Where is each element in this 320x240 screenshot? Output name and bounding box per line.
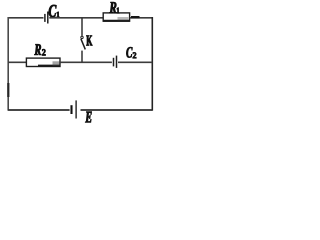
wire middle-left segment — [8, 61, 26, 63]
wire top-middle segment — [49, 17, 103, 19]
wire bottom-left segment — [8, 109, 69, 111]
label E — [85, 112, 91, 123]
battery E — [72, 100, 77, 118]
label R1 — [109, 2, 119, 13]
label K — [86, 35, 92, 45]
wire right border — [151, 17, 153, 111]
label C2 — [126, 47, 136, 58]
wire left border thick segment — [7, 83, 9, 97]
capacitor C1 — [45, 12, 48, 24]
wire top-right segment — [130, 17, 153, 19]
wire middle-right segment — [118, 61, 152, 63]
label R2 — [34, 44, 45, 55]
wire bottom-right segment — [81, 109, 153, 111]
wire top-left segment — [8, 17, 43, 19]
resistor R2 — [26, 58, 60, 66]
switch K — [81, 18, 86, 63]
resistor R1 — [103, 13, 129, 21]
wire left border — [7, 17, 9, 111]
label C1 — [49, 5, 60, 17]
capacitor C2 — [114, 56, 117, 68]
wire thick ink blob after R1 — [131, 16, 140, 18]
wire middle-center segment — [60, 61, 112, 63]
